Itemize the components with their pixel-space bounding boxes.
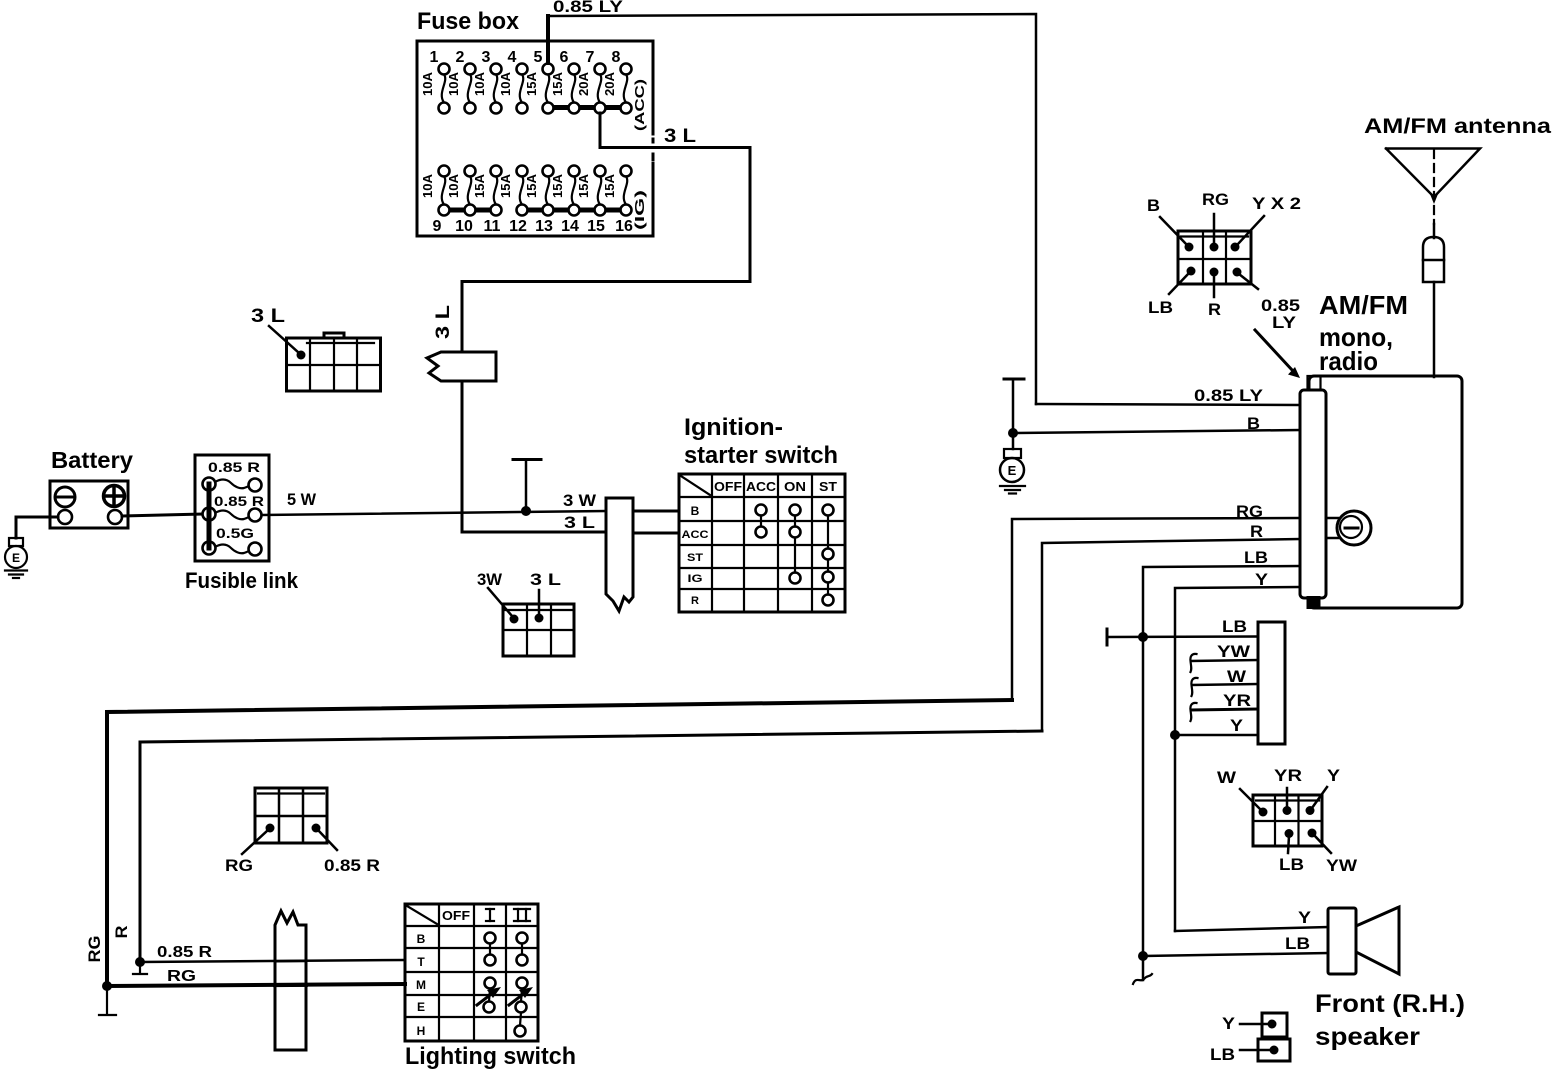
wire R long bus to lighting switch (140, 731, 1042, 962)
ACC bus bar under fuses 5-8 (548, 105, 626, 110)
terminal end below RG junction (106, 986, 108, 1014)
contact II-M (517, 978, 528, 989)
contact I-T (485, 955, 496, 966)
svg-text:RG: RG (225, 856, 253, 875)
svg-text:Y: Y (1255, 570, 1269, 589)
column header II (514, 909, 530, 921)
svg-text:5: 5 (534, 49, 543, 66)
ground E (radio) (1000, 449, 1025, 494)
junction Y (1170, 730, 1180, 740)
arrow from 0.85 LY connector label to radio connector (1255, 330, 1293, 371)
junction on wire B (1008, 428, 1018, 438)
svg-text:20A: 20A (602, 71, 617, 96)
contact II-B (517, 933, 528, 944)
svg-text:speaker: speaker (1315, 1023, 1420, 1051)
svg-text:3 L: 3 L (251, 306, 285, 327)
fuse 5 (15A) (524, 49, 554, 114)
svg-text:3 L: 3 L (433, 305, 454, 339)
fuse 4 (10A) (498, 49, 528, 114)
svg-text:20A: 20A (576, 71, 591, 96)
fusible link 1 (0.85 R) (215, 479, 250, 488)
svg-text:YR: YR (1274, 766, 1302, 785)
svg-text:3 W: 3 W (563, 491, 597, 510)
svg-text:B: B (417, 932, 426, 946)
svg-text:YW: YW (1217, 642, 1251, 661)
svg-text:1: 1 (430, 49, 439, 66)
svg-text:ON: ON (784, 479, 806, 494)
SECTION: FUSE BOX (417, 8, 658, 236)
fuse 10 (10A) (446, 166, 476, 236)
battery body (50, 481, 128, 528)
connector 6-cell (RG / 0.85 R) (255, 788, 327, 843)
svg-text:(ACC): (ACC) (632, 79, 647, 131)
svg-text:Fuse box: Fuse box (417, 8, 520, 35)
fuse 15 (15A) (576, 166, 606, 236)
svg-text:11: 11 (484, 218, 501, 235)
contact I-E (484, 1002, 495, 1013)
svg-text:LY: LY (1272, 313, 1297, 332)
AM/FM mono radio box (1309, 376, 1462, 608)
wire 0.85 LY from fuse 5 up and across to radio (546, 16, 550, 63)
svg-text:5 W: 5 W (287, 490, 317, 509)
wire 3 L from fuse 7 (ACC bus) down and around (462, 113, 750, 352)
connector 6-cell (radio plug B/RG/YX2) (1178, 231, 1251, 284)
svg-text:0.85 R: 0.85 R (324, 856, 380, 875)
svg-text:3 L: 3 L (664, 126, 696, 147)
svg-text:15A: 15A (472, 173, 487, 198)
antenna plug capsule (1423, 237, 1444, 282)
svg-text:RG: RG (85, 936, 104, 963)
svg-text:0.5G: 0.5G (216, 525, 254, 541)
SECTION: BATTERY AND FUSIBLE LINK (5, 447, 299, 593)
junction R / 0.85 R (135, 957, 145, 967)
column header I (486, 909, 494, 921)
stub terminal above ground (radio) (1004, 378, 1024, 381)
SECTION: SPEAKER AREA (1107, 548, 1465, 1064)
contact ST-ST (823, 549, 834, 560)
wire YW stub with hook (1191, 660, 1258, 661)
svg-text:ST: ST (819, 479, 837, 494)
svg-text:YW: YW (1326, 856, 1358, 875)
wire RG radio to long bus (1012, 518, 1300, 700)
svg-text:3 L: 3 L (530, 570, 561, 589)
svg-text:10: 10 (455, 218, 473, 235)
link ON column (794, 516, 796, 527)
battery negative terminal symbol (55, 487, 75, 507)
contact II-E (516, 1002, 527, 1013)
svg-text:3W: 3W (477, 570, 503, 589)
svg-text:W: W (1227, 667, 1247, 686)
wire RG long bus to lighting switch (107, 700, 1012, 986)
wire Y into harness connector (1175, 734, 1258, 737)
harness break connector to ignition switch (606, 498, 633, 611)
svg-text:T: T (417, 955, 425, 969)
svg-text:ST: ST (687, 552, 703, 564)
svg-text:12: 12 (509, 218, 527, 235)
svg-text:IG: IG (688, 573, 703, 585)
svg-text:Y: Y (1298, 908, 1312, 927)
svg-text:0.85 R: 0.85 R (208, 459, 260, 475)
svg-text:Fusible link: Fusible link (185, 568, 299, 593)
connector 6-cell (W/YR/Y) (1253, 795, 1322, 846)
harness break box over lighting wires (275, 911, 306, 1050)
wire Y to speaker (1175, 927, 1328, 931)
contact ON-ACC (790, 527, 801, 538)
svg-text:Lighting switch: Lighting switch (405, 1043, 576, 1070)
fuse 8 (20A) (602, 49, 632, 114)
svg-text:M: M (416, 978, 426, 992)
svg-text:6: 6 (560, 49, 569, 66)
contact I-M (485, 978, 496, 989)
svg-text:B: B (1247, 414, 1260, 433)
wire LB break end below junction (1142, 956, 1145, 980)
fuse 11 (15A) (472, 166, 502, 236)
svg-text:ACC: ACC (746, 479, 777, 494)
svg-text:4: 4 (508, 49, 517, 66)
connector 8-cell (3 L) (287, 333, 381, 391)
stub terminal above 5 W wire (513, 458, 541, 461)
contact ACC-ACC (756, 527, 767, 538)
ground E (battery) (5, 538, 27, 578)
svg-text:15A: 15A (524, 173, 539, 198)
svg-text:RG: RG (1202, 190, 1229, 209)
svg-text:9: 9 (433, 218, 442, 235)
fuse 13 (15A) (524, 166, 554, 236)
svg-text:15A: 15A (576, 173, 591, 198)
front speaker symbol (1328, 907, 1399, 974)
svg-text:10A: 10A (420, 173, 435, 198)
contact I-B (485, 933, 496, 944)
svg-text:AM/FM: AM/FM (1319, 290, 1408, 320)
battery post (negative) (58, 510, 72, 524)
wire LB from radio down (1143, 566, 1300, 956)
lighting switch table (405, 904, 538, 1041)
svg-text:E: E (12, 551, 20, 565)
fuse 1 (10A) (420, 49, 450, 114)
antenna lead into radio (1433, 282, 1436, 377)
svg-text:OFF: OFF (442, 908, 470, 923)
svg-text:Y: Y (1222, 1014, 1236, 1033)
svg-text:AM/FM antenna: AM/FM antenna (1364, 115, 1551, 138)
wire YR stub with hook (1191, 709, 1258, 710)
wire 5 W from fusible link to ignition connector (262, 511, 606, 515)
fuse 16 (15A) (602, 166, 633, 236)
svg-text:15A: 15A (550, 173, 565, 198)
svg-text:2: 2 (456, 49, 465, 66)
IG bus bar under fuses 12-16 (522, 208, 626, 213)
svg-text:R: R (691, 595, 699, 607)
fuse 2 (10A) (446, 49, 476, 114)
wire Y from radio down (1175, 587, 1300, 931)
contact II-H (515, 1026, 526, 1037)
svg-text:radio: radio (1319, 346, 1378, 376)
contact ON-IG (790, 573, 801, 584)
svg-text:14: 14 (561, 218, 579, 235)
SECTION: MAIN WIRES (107, 0, 1300, 986)
svg-text:LB: LB (1279, 855, 1304, 874)
fuse 6 (15A) (550, 49, 580, 114)
wiper arrow I (477, 992, 494, 1005)
svg-text:LB: LB (1148, 298, 1173, 317)
SECTION: RADIO AND ANTENNA (1147, 115, 1551, 609)
battery positive terminal symbol (104, 486, 125, 507)
wire RG to lighting switch (107, 984, 405, 986)
svg-text:0.85 LY: 0.85 LY (1194, 386, 1264, 405)
svg-text:LB: LB (1285, 934, 1310, 953)
radio connector bottom tab (1307, 596, 1321, 609)
svg-text:RG: RG (167, 968, 196, 985)
fusible link 3 (0.5G) (215, 544, 250, 553)
contact ST-R (823, 595, 834, 606)
svg-text:Y: Y (1327, 766, 1341, 785)
svg-text:LB: LB (1244, 548, 1268, 567)
wire 3 L continues down to ignition connector (462, 381, 606, 532)
svg-text:10A: 10A (420, 71, 435, 96)
svg-text:10A: 10A (446, 71, 461, 96)
svg-text:15A: 15A (524, 71, 539, 96)
svg-text:W: W (1217, 768, 1237, 787)
wire 0.85 R to lighting switch (140, 960, 405, 962)
svg-text:Y X 2: Y X 2 (1252, 194, 1301, 213)
fuse 9 (10A) (420, 166, 450, 236)
svg-text:starter switch: starter switch (684, 442, 838, 469)
stub terminal on LB tee (1106, 629, 1109, 645)
svg-text:E: E (1008, 463, 1017, 478)
svg-text:Y: Y (1230, 716, 1244, 735)
redraw wires through break box (275, 960, 306, 963)
svg-text:10A: 10A (446, 173, 461, 198)
radio connector strip (1300, 390, 1326, 598)
link ACC column (760, 516, 762, 527)
fuse box right edge dashed gap where wire 3 L crosses (648, 126, 658, 162)
wire LB to speaker (1143, 953, 1328, 956)
svg-text:H: H (417, 1024, 426, 1038)
ignition-starter switch table (679, 474, 845, 612)
svg-text:16: 16 (615, 218, 633, 235)
radio connector top tab (1308, 376, 1321, 390)
svg-text:Ignition-: Ignition- (684, 414, 783, 441)
contact ACC-B (756, 505, 767, 516)
svg-text:13: 13 (535, 218, 553, 235)
svg-text:(IG): (IG) (632, 190, 647, 230)
svg-text:LB: LB (1222, 617, 1247, 636)
svg-text:15: 15 (587, 218, 605, 235)
svg-text:Battery: Battery (51, 447, 133, 473)
wire LB tee into harness connector (1107, 635, 1258, 638)
svg-text:3 L: 3 L (564, 513, 595, 532)
battery post (positive) (108, 510, 122, 524)
antenna symbol (1386, 149, 1480, 239)
svg-text:10A: 10A (498, 71, 513, 96)
harness break box on wire 3 L (427, 352, 496, 381)
connector 6-cell (3W / 3 L) below ignition wires (503, 604, 574, 656)
svg-text:R: R (112, 926, 131, 939)
fuse 12 (15A) (498, 166, 528, 236)
radio tuning knob (1326, 511, 1371, 545)
svg-text:R: R (1250, 522, 1263, 541)
svg-text:YR: YR (1223, 691, 1251, 710)
svg-text:0.85 LY: 0.85 LY (553, 0, 624, 16)
svg-text:OFF: OFF (714, 479, 742, 494)
fuse 7 (20A) (576, 49, 606, 114)
contact ST-IG (823, 572, 834, 583)
junction LB (1138, 632, 1148, 642)
wire battery positive to fusible link (122, 514, 202, 516)
contact ST-B (823, 505, 834, 516)
fuse 14 (15A) (550, 166, 580, 236)
junction LB (speaker) (1138, 951, 1148, 961)
svg-text:LB: LB (1210, 1045, 1235, 1064)
svg-text:B: B (691, 504, 700, 518)
link ST column (827, 516, 829, 549)
svg-text:E: E (417, 1000, 425, 1014)
svg-text:Front (R.H.): Front (R.H.) (1315, 990, 1465, 1018)
wire W stub with hook (1192, 684, 1258, 685)
svg-text:15A: 15A (602, 173, 617, 198)
contact II-T (517, 955, 528, 966)
svg-text:10A: 10A (472, 71, 487, 96)
svg-text:0.85 R: 0.85 R (214, 493, 264, 509)
svg-text:8: 8 (612, 49, 621, 66)
wire ACC: connector to switch (633, 532, 679, 535)
wire B to radio (1013, 430, 1300, 433)
SECTION: LIGHTING SWITCH (85, 788, 576, 1070)
bus bar joining fusible link left terminals (207, 484, 212, 548)
SECTION: IGNITION SWITCH (606, 414, 845, 612)
svg-text:15A: 15A (498, 173, 513, 198)
fusible link 2 (0.85 R) (215, 510, 250, 519)
fuse box body (417, 41, 653, 236)
fuse 3 (10A) (472, 49, 502, 114)
junction RG (102, 981, 112, 991)
wire B: connector to switch (633, 510, 679, 513)
svg-text:RG: RG (1236, 502, 1263, 521)
junction on 5 W wire (521, 506, 531, 516)
contact ON-B (790, 505, 801, 516)
wire battery negative to ground (16, 517, 58, 538)
harness connector (speaker leads) (1258, 622, 1285, 744)
fusible link box (195, 455, 269, 561)
svg-text:0.85 R: 0.85 R (157, 944, 213, 961)
wire R radio to long bus (1042, 539, 1300, 731)
svg-text:B: B (1147, 196, 1160, 215)
terminal end below R junction (139, 962, 141, 973)
svg-text:R: R (1208, 300, 1221, 319)
wire 0.85 LY into radio (1036, 404, 1300, 405)
svg-text:15A: 15A (550, 71, 565, 96)
svg-text:3: 3 (482, 49, 491, 66)
IG bus bar under fuses 9-11 (444, 208, 496, 213)
svg-text:7: 7 (586, 49, 595, 66)
wiper arrow II (509, 992, 526, 1005)
svg-text:ACC: ACC (682, 529, 709, 541)
